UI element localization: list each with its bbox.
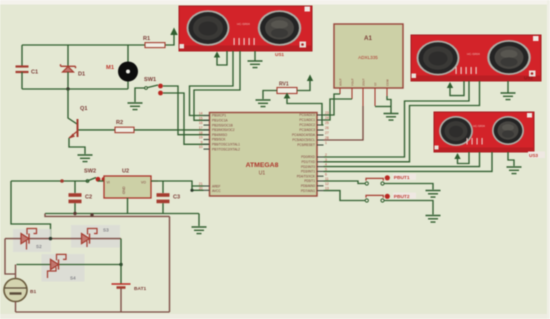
- svg-text:PD6/AIN0: PD6/AIN0: [301, 184, 315, 188]
- svg-text:B1: B1: [30, 289, 36, 295]
- battery B1: [4, 265, 36, 313]
- svg-text:PB6/TOSC1/XTAL1: PB6/TOSC1/XTAL1: [212, 143, 240, 147]
- wire US3 trig to PD2: [324, 152, 480, 167]
- svg-text:27: 27: [325, 131, 329, 135]
- push button PBUT1: [365, 174, 416, 185]
- wire US2 trig to PD0: [324, 81, 470, 157]
- zener diode D1: [61, 45, 86, 91]
- svg-text:PC4/ADC4/SDA: PC4/ADC4/SDA: [292, 133, 316, 137]
- svg-text:C2: C2: [85, 195, 92, 201]
- svg-text:D1: D1: [78, 72, 85, 78]
- wire SW1 upper contact to PB4: [163, 86, 209, 135]
- wire right outer: [169, 216, 171, 312]
- wire D1 node to Q1 collector: [68, 89, 77, 124]
- ground below RV1 left: [256, 100, 271, 107]
- svg-text:12: 12: [325, 182, 329, 186]
- wire rail A to ground: [198, 214, 200, 227]
- svg-text:ADXL335: ADXL335: [358, 55, 378, 60]
- wire SW1 lower contact to PB6: [163, 93, 209, 144]
- capacitor C2: [69, 181, 93, 214]
- svg-text:PC3/ADC3: PC3/ADC3: [299, 128, 315, 132]
- wire US1 echo to PB1: [194, 51, 240, 120]
- svg-text:PC1/ADC1: PC1/ADC1: [299, 118, 315, 122]
- junction at AVCC: [190, 189, 193, 192]
- voltage regulator U2: [104, 169, 158, 199]
- svg-text:US2: US2: [524, 76, 533, 81]
- selection box S3: [71, 225, 120, 248]
- svg-text:A1: A1: [364, 35, 372, 42]
- wire left outer: [5, 239, 16, 274]
- svg-text:18: 18: [199, 131, 203, 135]
- svg-text:S3: S3: [103, 228, 109, 233]
- wire R1 to VCC arrow: [165, 34, 174, 45]
- svg-text:PBUT1: PBUT1: [394, 175, 410, 181]
- svg-text:SW1: SW1: [144, 77, 156, 83]
- SCR S2: [21, 229, 42, 250]
- ground below A1: [384, 114, 399, 121]
- svg-text:9: 9: [201, 140, 203, 144]
- svg-text:U2: U2: [122, 169, 129, 175]
- wire A1 ST to ground: [375, 106, 391, 108]
- accelerometer A1 ADXL335: [334, 24, 403, 88]
- svg-text:XOUT: XOUT: [339, 78, 343, 86]
- power arrow below US1: [214, 51, 227, 65]
- svg-text:16: 16: [199, 121, 203, 125]
- selection box S4: [42, 254, 85, 282]
- ground below US2: [501, 81, 516, 100]
- motor M1: [106, 45, 138, 89]
- svg-text:HC-SR04: HC-SR04: [237, 22, 250, 26]
- svg-text:PD7/AIN1: PD7/AIN1: [301, 189, 315, 193]
- svg-text:PB3/MOSI/OC2: PB3/MOSI/OC2: [212, 128, 235, 132]
- svg-text:PB5/SCK: PB5/SCK: [212, 138, 226, 142]
- ultrasonic module US1: [179, 6, 312, 57]
- wire A1 COM to ground: [387, 96, 391, 114]
- wire SW2 to U2 input: [98, 180, 104, 182]
- svg-text:AREF: AREF: [212, 184, 221, 188]
- svg-text:BAT1: BAT1: [134, 286, 147, 292]
- wire AVCC branch: [192, 186, 204, 190]
- battery BAT1: [112, 284, 147, 312]
- wire A1 X to PC0: [324, 94, 341, 115]
- wire PBUT2 to ground: [384, 201, 433, 215]
- power arrow below US3: [454, 152, 469, 164]
- svg-text:GND: GND: [122, 186, 126, 194]
- junction node on rail: [60, 179, 64, 183]
- A1 pins: [340, 88, 387, 106]
- svg-text:R2: R2: [116, 120, 123, 126]
- ground for PBUT1: [426, 191, 441, 198]
- selection box S2: [13, 229, 51, 252]
- wire Q1 emitter to ground: [69, 138, 85, 154]
- junction dots on rails: [73, 212, 76, 215]
- resistor R2: [115, 120, 134, 133]
- svg-text:PC0/ADC0: PC0/ADC0: [299, 113, 315, 117]
- wire A1 Y to PC1 via left: [324, 99, 353, 120]
- junction row2: [119, 263, 122, 266]
- svg-text:PB0/ICP1: PB0/ICP1: [212, 114, 226, 118]
- SCR S4: [48, 254, 77, 280]
- ground below SW1: [128, 103, 143, 110]
- svg-text:VO: VO: [141, 181, 146, 185]
- svg-text:PD2/INT0: PD2/INT0: [301, 165, 315, 169]
- wire ground rail A: [45, 213, 199, 215]
- switch SW2: [84, 169, 106, 183]
- svg-text:PD3/INT1: PD3/INT1: [301, 170, 315, 174]
- svg-text:PD1/TXD: PD1/TXD: [302, 160, 316, 164]
- svg-text:S4: S4: [70, 276, 76, 281]
- wire RV1 wiper to PC1: [287, 99, 324, 125]
- svg-text:PB4/MISO: PB4/MISO: [212, 133, 228, 137]
- U1 left pins PB0-PB7: [204, 116, 210, 191]
- wire hairpin rail B: [45, 214, 170, 217]
- capacitor C1: [16, 45, 39, 89]
- svg-text:HC-SR04: HC-SR04: [467, 52, 480, 56]
- svg-text:S2: S2: [36, 244, 42, 249]
- wire charger row1: [5, 238, 121, 240]
- svg-text:YOUT: YOUT: [351, 78, 355, 86]
- ultrasonic module US3: [434, 112, 545, 158]
- transistor Q1: [69, 106, 87, 139]
- svg-text:17: 17: [199, 126, 203, 130]
- wire Q1 base to R2: [79, 129, 116, 131]
- wire PBUT1 to ground: [384, 184, 433, 190]
- wire U2 ground pin: [127, 198, 129, 214]
- ground for PBUT2: [426, 216, 441, 223]
- potentiometer RV1: [277, 82, 297, 100]
- U1 right pins PC0-PC6 PD0-PD7: [317, 115, 324, 191]
- svg-text:US3: US3: [529, 153, 538, 158]
- power VCC arrow top: [171, 28, 178, 35]
- power VCC arrow near RV1: [307, 75, 313, 82]
- svg-text:26: 26: [325, 126, 329, 130]
- wire PD7 to PBUT2: [324, 191, 366, 201]
- ground below US1: [248, 51, 263, 68]
- svg-text:ATMEGA8: ATMEGA8: [246, 162, 279, 169]
- wire US2 echo to PD1: [324, 81, 480, 162]
- wire US1 trig to PB0: [190, 51, 234, 116]
- svg-text:RV1: RV1: [279, 82, 289, 88]
- svg-text:R1: R1: [143, 36, 150, 42]
- svg-text:15: 15: [199, 116, 203, 120]
- power arrow below US2: [447, 81, 464, 96]
- wire top rail C1 to R1: [22, 44, 145, 46]
- wire charger row2: [17, 264, 122, 266]
- svg-text:PD5/T1: PD5/T1: [304, 179, 315, 183]
- resistor R1: [143, 36, 165, 48]
- U1 right pin numbers: [325, 111, 329, 191]
- svg-text:SW2: SW2: [84, 169, 96, 175]
- wire SW2 branch down to charger: [11, 181, 51, 239]
- svg-text:U1: U1: [259, 171, 266, 177]
- ultrasonic module US2: [411, 35, 541, 81]
- U1 right pin labels: [292, 113, 316, 193]
- svg-text:10: 10: [199, 145, 203, 149]
- svg-text:PD4/T0/XCK: PD4/T0/XCK: [297, 174, 316, 178]
- capacitor C3: [157, 181, 181, 214]
- ground of rail A: [192, 227, 207, 234]
- svg-text:HC-SR04: HC-SR04: [473, 124, 485, 128]
- svg-text:ST: ST: [374, 82, 378, 86]
- svg-text:C1: C1: [31, 70, 38, 76]
- wire US3 echo to PD3: [324, 152, 493, 171]
- wire R2 to PB3 pin: [134, 129, 209, 131]
- svg-text:ZOUT: ZOUT: [362, 78, 366, 86]
- svg-text:PC2/ADC2: PC2/ADC2: [299, 123, 315, 127]
- wire bottom rail: [22, 88, 128, 90]
- svg-text:M1: M1: [106, 65, 115, 71]
- svg-text:C3: C3: [173, 195, 180, 201]
- switch SW1: [144, 77, 163, 95]
- wire RV1 left to ground: [263, 91, 277, 100]
- svg-text:25: 25: [325, 121, 329, 125]
- svg-text:COM: COM: [386, 79, 390, 86]
- svg-text:PC5/ADC5/SCL: PC5/ADC5/SCL: [292, 138, 315, 142]
- svg-text:PC6/RESET: PC6/RESET: [297, 143, 315, 147]
- svg-text:VI: VI: [107, 181, 110, 185]
- svg-text:US1: US1: [275, 52, 284, 57]
- svg-text:6: 6: [325, 172, 327, 176]
- wire PD5 to PBUT1: [324, 181, 366, 184]
- U1 left pin numbers: [199, 112, 203, 191]
- svg-text:19: 19: [199, 136, 203, 140]
- ground below Q1: [78, 155, 93, 162]
- junction row1: [49, 237, 52, 240]
- svg-text:14: 14: [199, 112, 203, 116]
- svg-text:PD0/RXD: PD0/RXD: [301, 155, 316, 159]
- svg-text:AVCC: AVCC: [212, 189, 221, 193]
- wire RV1 right to VCC arrow: [297, 81, 310, 91]
- svg-text:PB2/SS/OC1B: PB2/SS/OC1B: [212, 123, 233, 127]
- svg-text:Q1: Q1: [80, 106, 87, 112]
- wire SW1 pivot to ground: [135, 88, 145, 102]
- svg-text:PBUT2: PBUT2: [394, 194, 410, 200]
- push button PBUT2: [365, 193, 416, 202]
- svg-text:1: 1: [325, 141, 327, 145]
- svg-text:PB7/TOSC2/XTAL2: PB7/TOSC2/XTAL2: [212, 147, 240, 151]
- wire A1 Z long maroon to PC5: [324, 106, 364, 140]
- wire U2 output rail: [151, 181, 204, 186]
- SCR S3: [82, 228, 110, 248]
- U1 left pin labels: [212, 114, 240, 193]
- ground below US3: [507, 152, 522, 174]
- wire bottom rail: [16, 311, 170, 313]
- wire row1 right down to BAT1: [120, 239, 122, 284]
- microcontroller U1 ATMEGA8: [210, 113, 318, 197]
- wire supply rail SW2 row: [11, 180, 89, 182]
- svg-text:PB1/OC1A: PB1/OC1A: [212, 119, 228, 123]
